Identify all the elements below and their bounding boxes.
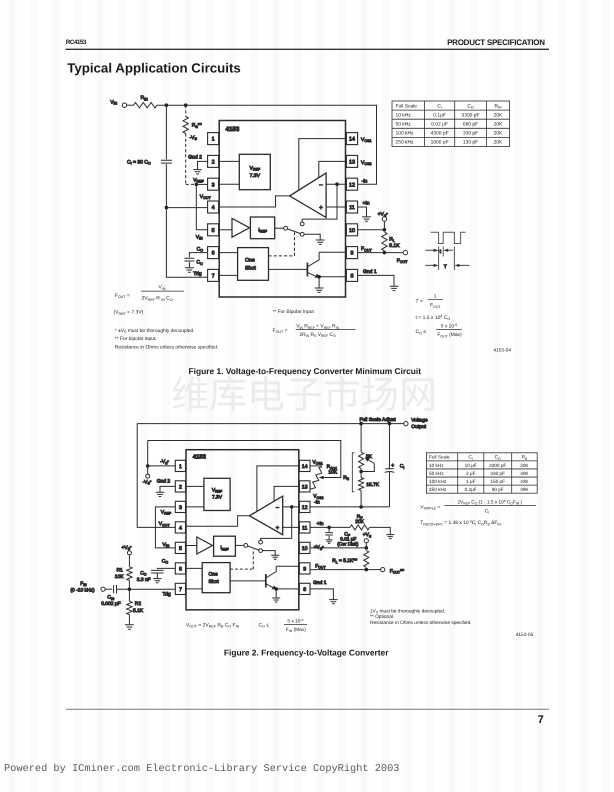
ground +In: [362, 217, 371, 221]
op-amp comparator fig2: [249, 496, 282, 535]
svg-text:维库电子市场网: 维库电子市场网: [171, 375, 437, 417]
svg-text:CO: CO: [495, 455, 501, 461]
wire CO cap to ground fig2: [156, 573, 158, 579]
svg-text:VREF: VREF: [250, 166, 261, 172]
buffer amplifier fig2: [197, 537, 213, 554]
svg-text:20K: 20K: [494, 122, 503, 128]
box IREF: [250, 217, 274, 239]
box VREF 7.3V: [239, 154, 270, 189]
svg-text:** Optional.: ** Optional.: [370, 614, 394, 620]
svg-text:TRECOVERY = 1.38 x 10-3CI CO: TRECOVERY = 1.38 x 10-3CI CORB ΔFIN: [420, 520, 501, 527]
wire pin2 to VREF box fig2: [186, 485, 204, 487]
svg-text:3.3 nF: 3.3 nF: [137, 577, 151, 583]
svg-text:Output: Output: [411, 424, 426, 430]
svg-text:-In: -In: [362, 179, 368, 185]
footer rule: [66, 708, 549, 710]
svg-text:330 pF: 330 pF: [490, 471, 505, 476]
wire pin3 to VREF box: [219, 183, 240, 185]
svg-text:CI: CI: [437, 103, 442, 109]
svg-text:CO: CO: [162, 558, 169, 564]
node -In junction fig2: [290, 505, 294, 509]
svg-text:-VS*: -VS*: [160, 459, 169, 465]
svg-text:±VS must be thoroughly decoupl: ±VS must be thoroughly decoupled.: [370, 608, 445, 614]
svg-text:−: −: [276, 505, 280, 511]
svg-text:IREF: IREF: [220, 545, 228, 551]
svg-text:(0 -10 kHz): (0 -10 kHz): [70, 587, 95, 593]
resistor RL 5.1K fig2: [364, 551, 369, 568]
svg-text:39K: 39K: [520, 487, 529, 492]
svg-text:CO ≤: CO ≤: [416, 329, 427, 335]
svg-text:680 pF: 680 pF: [463, 122, 478, 128]
capacitor CIN 0.002uF: [114, 585, 117, 593]
wire VOUT pin4 to rail: [137, 424, 175, 528]
wire pin2 to ground fig2: [160, 486, 175, 492]
svg-text:7.3V: 7.3V: [212, 494, 223, 500]
svg-text:2: 2: [212, 160, 215, 166]
svg-text:8: 8: [351, 274, 354, 280]
wire CIN to trig node: [117, 588, 176, 590]
svg-text:Powered by ICminer.com Electro: Powered by ICminer.com Electronic-Librar…: [4, 763, 399, 775]
wire emitter to pin8 fig2: [276, 589, 299, 598]
svg-text:VOUT: VOUT: [159, 521, 171, 527]
svg-text:RB: RB: [343, 475, 350, 481]
svg-text:FIN: FIN: [80, 581, 87, 587]
box IREF fig2: [214, 536, 236, 556]
table Full Scale / CI / CO / RB figure2: [426, 453, 537, 493]
svg-text:Full Scale: Full Scale: [396, 103, 418, 109]
wire collector to pin9 fig2: [276, 565, 299, 567]
svg-text:FOUT: FOUT: [361, 246, 372, 252]
wire -In pin12 to op-amp: [326, 183, 346, 185]
wire op-amp output to pin4: [219, 196, 290, 207]
buffer amplifier: [232, 218, 250, 237]
wire pin6 to CO cap fig2: [157, 567, 175, 570]
resistor 18.7K: [360, 469, 362, 478]
wire pin6 to CO cap: [189, 253, 207, 258]
wiper 5K: [361, 459, 374, 471]
svg-text:2 μF: 2 μF: [466, 471, 476, 476]
svg-text:CI: CI: [469, 455, 473, 461]
waveform measure lines: [439, 246, 455, 270]
svg-text:FOUT =: FOUT =: [115, 293, 130, 299]
terminal FOUT output: [403, 250, 407, 254]
svg-text:* ±VS must be thoroughly deco: * ±VS must be thoroughly decoupled.: [115, 328, 195, 334]
node pin9 junction: [383, 251, 387, 255]
svg-text:+: +: [391, 463, 394, 469]
box VREF 7.3V fig2: [204, 478, 230, 510]
wire pin9 to FOUT terminal: [358, 252, 404, 254]
svg-text:FOUT**: FOUT**: [390, 568, 404, 574]
wire -In to switch contact: [302, 184, 337, 222]
svg-text:2RIN RS VREF CO: 2RIN RS VREF CO: [299, 332, 336, 338]
ground CO: [185, 268, 194, 272]
svg-text:CO: CO: [140, 570, 147, 576]
svg-text:PRODUCT SPECIFICATION: PRODUCT SPECIFICATION: [447, 38, 545, 47]
svg-text:2: 2: [179, 484, 182, 490]
svg-text:7: 7: [179, 587, 182, 593]
svg-text:Gnd 2: Gnd 2: [188, 155, 202, 161]
capacitor C1 electrolytic: [389, 424, 391, 469]
wire pin14 to op-amp fig2: [257, 466, 300, 512]
wire pin3 to VREF box fig2: [186, 506, 204, 508]
svg-text:+VS: +VS: [363, 532, 372, 538]
wire +VS to pin10 node: [383, 221, 385, 230]
svg-text:20K: 20K: [494, 112, 503, 118]
wire switch to ground: [304, 234, 320, 240]
terminal +VS fig2 left: [127, 551, 131, 555]
svg-text:1: 1: [434, 293, 437, 299]
svg-text:11: 11: [302, 525, 307, 531]
svg-text:130 pF: 130 pF: [463, 140, 478, 146]
wire pin14 to op-amp: [299, 139, 347, 191]
svg-text:Resistance in Ohms unless othe: Resistance in Ohms unless otherwise spec…: [370, 620, 472, 626]
svg-text:(Cer Disk): (Cer Disk): [337, 541, 359, 546]
svg-text:CO ≤: CO ≤: [259, 622, 270, 628]
ground Gnd2 fig2: [156, 492, 164, 496]
capacitor CI = 30 CO: [161, 160, 172, 163]
svg-text:2VREF R IN CO: 2VREF R IN CO: [142, 296, 173, 302]
svg-text:Shot: Shot: [209, 579, 220, 585]
svg-text:13: 13: [302, 484, 308, 490]
wire collector to pin9: [319, 251, 346, 253]
svg-text:11: 11: [349, 205, 355, 211]
wire pin11 to ground: [358, 207, 367, 217]
wire pin5 to buffer fig2: [186, 546, 197, 548]
svg-text:20K: 20K: [520, 463, 529, 468]
svg-text:4153-04: 4153-04: [493, 348, 511, 354]
terminal FOUT fig2: [381, 568, 385, 572]
svg-text:One: One: [209, 572, 219, 578]
svg-text:VIN: VIN: [110, 99, 117, 105]
svg-text:RB: RB: [522, 455, 528, 461]
switch S1: [284, 226, 288, 230]
svg-text:9: 9: [303, 566, 306, 572]
svg-text:T =: T =: [416, 298, 423, 304]
svg-text:+In: +In: [317, 521, 324, 527]
svg-text:Full Scale Adjust: Full Scale Adjust: [360, 417, 397, 423]
svg-text:0.02 μF: 0.02 μF: [431, 122, 448, 128]
svg-text:FOUT =: FOUT =: [273, 328, 288, 334]
wire rail junctions: [359, 422, 363, 426]
box One Shot fig2: [202, 563, 230, 593]
svg-text:5: 5: [179, 546, 182, 552]
svg-text:One: One: [245, 258, 255, 264]
wire FIN to CIN: [105, 588, 112, 590]
svg-text:5 x 10-4: 5 x 10-4: [287, 618, 303, 624]
svg-text:Voltage: Voltage: [411, 418, 428, 424]
wire One Shot to transistor base: [269, 268, 308, 270]
svg-text:+In: +In: [363, 200, 370, 206]
svg-text:FIN (Max): FIN (Max): [286, 627, 306, 633]
wire +In pin11 to op-amp: [326, 206, 346, 208]
svg-text:6: 6: [212, 251, 215, 257]
svg-text:10K: 10K: [115, 574, 124, 580]
wire pin6 to One Shot: [219, 252, 238, 254]
wire node down to Trig: [166, 208, 207, 278]
wire pin7 to One Shot: [219, 274, 238, 276]
wire pin10 to RL: [310, 547, 366, 549]
svg-text:150 pF: 150 pF: [490, 479, 505, 484]
wire VREF node to VIN pin: [196, 184, 207, 229]
svg-text:** For bipolar input.: ** For bipolar input.: [115, 336, 157, 342]
wire top rail to -In: [157, 105, 377, 184]
wire pin11 +In to op-amp fig2: [283, 526, 300, 528]
wire pin14 to RADJ: [310, 465, 322, 467]
svg-text:3: 3: [179, 505, 182, 511]
svg-text:VIN: VIN: [159, 285, 166, 291]
capacitor CO: [184, 258, 194, 261]
svg-text:8: 8: [303, 587, 306, 593]
wire -VS rail to RADJ wiper: [148, 441, 341, 478]
svg-text:7.3V: 7.3V: [250, 173, 261, 179]
svg-text:7: 7: [538, 714, 544, 726]
svg-text:0.002 μF: 0.002 μF: [101, 601, 120, 607]
terminal -VS supply: [146, 474, 150, 478]
wire pin13 to op-amp fig2: [274, 486, 299, 501]
svg-text:T: T: [444, 264, 447, 270]
resistor RADJ 10K: [313, 467, 323, 489]
svg-text:Shot: Shot: [245, 266, 256, 272]
node trig junction: [128, 587, 132, 591]
svg-text:RS**: RS**: [192, 123, 202, 129]
wire dashed node to RS: [185, 105, 187, 116]
svg-text:VREF: VREF: [212, 488, 222, 494]
pin boxes 8-14 fig2: [299, 460, 310, 471]
svg-text:RF: RF: [357, 514, 363, 520]
table Full Scale / CI / CO / RIN figure1: [392, 101, 510, 147]
svg-text:4300 pF: 4300 pF: [431, 131, 449, 137]
svg-text:RL: RL: [389, 237, 395, 243]
resistor R1 10K: [128, 555, 130, 567]
wire full scale adjust rail: [137, 423, 404, 425]
resistor RL 5.1K: [382, 232, 387, 251]
op-amp comparator: [290, 173, 327, 217]
svg-text:Gnd 1: Gnd 1: [313, 580, 327, 586]
wire pin3 VREF to pin5 VIN: [155, 507, 175, 548]
waveform pulse train: [431, 232, 466, 243]
svg-text:t: t: [440, 249, 442, 255]
wire dashed One Shot to switch: [269, 233, 295, 256]
svg-text:5.1K: 5.1K: [133, 608, 144, 614]
transistor Q1: [306, 263, 308, 277]
wire dashed RS to VREF node: [186, 134, 194, 185]
svg-text:14: 14: [349, 137, 355, 143]
capacitor CF: [328, 527, 330, 531]
svg-text:FOUT: FOUT: [315, 563, 326, 569]
wire pin8 Gnd1 to ground: [358, 275, 394, 286]
svg-text:+: +: [276, 526, 280, 532]
wire pin2 to VREF box: [219, 160, 240, 162]
ground emitter: [315, 288, 324, 292]
svg-text:12: 12: [349, 182, 355, 188]
svg-text:10: 10: [349, 228, 355, 234]
wire pin2 to ground: [198, 161, 208, 169]
svg-text:100 kHz: 100 kHz: [396, 131, 414, 137]
svg-text:20K: 20K: [494, 140, 503, 146]
svg-text:VIN RREF + VREF RIN: VIN RREF + VREF RIN: [296, 324, 339, 330]
svg-text:1000 pF: 1000 pF: [431, 140, 449, 146]
svg-text:CI: CI: [400, 464, 405, 470]
svg-text:Typical Application Circuits: Typical Application Circuits: [67, 60, 241, 75]
svg-text:1: 1: [179, 464, 182, 470]
svg-text:10K: 10K: [328, 469, 337, 475]
svg-text:330 pF: 330 pF: [463, 131, 478, 137]
wire pin12 to RB and C1: [310, 506, 390, 508]
wire CI to VOUT node: [165, 164, 167, 208]
wire switch to ground fig2: [263, 551, 276, 556]
svg-text:t = 1.5 x 104 CO: t = 1.5 x 104 CO: [416, 314, 451, 321]
svg-text:−: −: [319, 182, 323, 189]
wire pin8 to ground fig2: [310, 589, 333, 600]
wire pin7 to One Shot fig2: [186, 588, 203, 590]
node -VS junction: [146, 464, 150, 468]
capacitor CO 3.3nF: [151, 570, 163, 573]
svg-text:Figure 2. Frequency-to-Voltage: Figure 2. Frequency-to-Voltage Converter: [224, 647, 389, 657]
svg-text:CO: CO: [197, 246, 204, 252]
svg-text:18.7K: 18.7K: [366, 482, 380, 488]
wire One Shot to transistor base fig2: [230, 580, 266, 582]
svg-text:-In: -In: [314, 500, 320, 506]
svg-text:4: 4: [212, 205, 215, 211]
wire pin5 to buffer: [219, 229, 232, 231]
svg-text:12: 12: [302, 505, 308, 511]
svg-text:CI: CI: [485, 508, 489, 514]
ground Gnd 1 external: [390, 286, 399, 290]
node junction CI: [165, 103, 169, 107]
svg-text:FOUT: FOUT: [397, 258, 408, 264]
wire pin6 to One Shot fig2: [186, 567, 203, 569]
svg-text:CI = 30 CO: CI = 30 CO: [127, 160, 151, 166]
svg-text:250 kHz: 250 kHz: [396, 140, 414, 146]
svg-text:VOS2: VOS2: [313, 494, 323, 500]
svg-text:10 kHz: 10 kHz: [396, 112, 412, 118]
node VREF junction: [195, 183, 199, 187]
svg-text:1: 1: [212, 137, 215, 143]
svg-text:10 kHz: 10 kHz: [429, 463, 444, 468]
ground R2: [125, 625, 134, 629]
ground Gnd1 fig2: [329, 600, 337, 604]
svg-text:3300 pF: 3300 pF: [489, 463, 506, 468]
svg-text:VIN: VIN: [196, 234, 203, 240]
wire IREF to switch: [275, 227, 284, 229]
svg-text:RIN: RIN: [141, 95, 149, 101]
svg-text:Trig: Trig: [163, 591, 172, 597]
svg-text:VOS2: VOS2: [361, 160, 372, 166]
svg-text:4153: 4153: [226, 126, 240, 133]
svg-text:6: 6: [179, 566, 182, 572]
wire pin1 -VS: [148, 465, 176, 467]
pin boxes 8-14: [346, 133, 357, 145]
wire +VS to pin10 node: [365, 543, 367, 548]
node junction VOUT row: [165, 206, 169, 210]
svg-text:(VREF = 7.3V): (VREF = 7.3V): [114, 310, 144, 316]
wire op-amp output to pin4 fig2: [186, 516, 250, 526]
svg-text:14: 14: [302, 464, 308, 470]
svg-text:FOUT: FOUT: [430, 303, 441, 309]
svg-text:VOUT: VOUT: [200, 194, 212, 200]
svg-text:VREF: VREF: [161, 509, 171, 515]
svg-text:VRIPPLE =: VRIPPLE =: [420, 505, 440, 511]
IC U1 4153 outline: [219, 121, 345, 298]
svg-text:50 kHz: 50 kHz: [396, 122, 412, 128]
svg-text:4: 4: [179, 525, 182, 531]
svg-text:10 μF: 10 μF: [465, 463, 477, 468]
resistor RIN: [134, 103, 158, 108]
pin boxes 1-7 fig2: [175, 460, 185, 471]
svg-text:RC4153: RC4153: [66, 39, 87, 46]
svg-text:0.2μF: 0.2μF: [465, 487, 477, 492]
waveform T arrows: [425, 264, 469, 266]
wire VIN to RIN: [127, 104, 134, 106]
svg-text:FOUT (Max): FOUT (Max): [437, 332, 462, 338]
ground emitter fig2: [272, 598, 280, 602]
switch S1 fig2: [244, 544, 248, 548]
svg-text:0.1μF: 0.1μF: [433, 112, 446, 118]
node junction RS: [184, 103, 188, 107]
wire IREF to switch fig2: [235, 544, 244, 546]
svg-text:RL = 5.1K**: RL = 5.1K**: [332, 558, 357, 564]
svg-text:RIN: RIN: [494, 103, 502, 109]
pin boxes 1-7: [208, 133, 219, 145]
ground Gnd 2: [193, 170, 202, 174]
svg-text:-VS*: -VS*: [143, 479, 152, 485]
svg-text:3: 3: [212, 182, 215, 188]
wire pin4 to CI node: [166, 207, 207, 209]
svg-text:Gnd 1: Gnd 1: [363, 269, 377, 275]
resistor RF 20K: [350, 525, 370, 530]
potentiometer 5K: [360, 424, 362, 452]
svg-text:R2: R2: [135, 601, 142, 607]
svg-text:IREF: IREF: [258, 227, 267, 233]
svg-text:100 kHz: 100 kHz: [429, 479, 447, 484]
header rule: [66, 48, 550, 50]
svg-text:VOS1: VOS1: [312, 459, 322, 465]
ground CF: [326, 540, 333, 544]
svg-text:250 kHz: 250 kHz: [429, 487, 447, 492]
wire emitter to pin8 and ground: [319, 277, 346, 288]
svg-text:9: 9: [351, 251, 354, 257]
wire dashed One Shot to switch fig2: [230, 549, 253, 569]
svg-text:+: +: [319, 205, 323, 212]
svg-text:7: 7: [212, 274, 215, 280]
wire CO cap to ground: [188, 262, 190, 268]
svg-text:VIN: VIN: [163, 542, 170, 548]
wire pin9 to FOUT terminal fig2: [310, 569, 381, 571]
IC U2 4153 outline: [186, 450, 299, 610]
wire pin11 to RF: [310, 526, 350, 528]
svg-text:** For Bipolar Input: ** For Bipolar Input: [273, 309, 315, 315]
svg-text:Trig: Trig: [193, 271, 202, 277]
ground CO fig2: [153, 579, 161, 583]
svg-text:5 x 10-5: 5 x 10-5: [441, 323, 457, 330]
bracket RB: [352, 453, 354, 492]
svg-text:CO: CO: [196, 260, 203, 266]
svg-text:43K: 43K: [520, 479, 529, 484]
node -In junction: [335, 182, 339, 186]
resistor RS**: [183, 117, 188, 134]
svg-text:Full Scale: Full Scale: [429, 455, 450, 460]
terminal Voltage Output: [404, 422, 408, 426]
svg-text:40K: 40K: [520, 471, 529, 476]
svg-text:4153: 4153: [193, 453, 207, 460]
svg-text:4153-05: 4153-05: [516, 632, 534, 638]
svg-text:20K: 20K: [355, 519, 364, 525]
svg-text:5.1K: 5.1K: [389, 243, 400, 249]
svg-text:VOS1: VOS1: [361, 137, 372, 143]
svg-text:-VS: -VS: [190, 135, 198, 141]
wire node to CI: [165, 105, 167, 159]
svg-text:13: 13: [349, 160, 355, 166]
